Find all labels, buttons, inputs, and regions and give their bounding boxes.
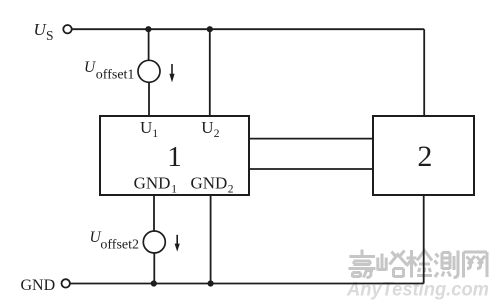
wire right vertical to box 2 top <box>423 29 425 116</box>
label U_offset2 <box>90 229 140 253</box>
terminal US <box>63 25 71 33</box>
svg-text:1: 1 <box>167 141 182 173</box>
wire GND1 drop <box>153 195 155 231</box>
watermark 嘉 <box>349 250 376 278</box>
arrow current direction 1 <box>169 64 174 82</box>
box 2 <box>373 116 474 195</box>
svg-text:U: U <box>201 118 213 137</box>
svg-text:2: 2 <box>228 184 234 196</box>
wire GND2 drop <box>210 195 212 284</box>
svg-text:GND: GND <box>191 174 228 193</box>
node junction bottom 2 <box>208 280 214 286</box>
wire box2 bottom drop <box>423 195 425 284</box>
svg-text:2: 2 <box>417 140 432 173</box>
wire source1 to box 1 <box>148 82 150 116</box>
label U_offset1 <box>84 59 134 83</box>
wire bus A box1 to box2 <box>249 138 373 140</box>
svg-text:U: U <box>140 118 152 137</box>
watermark 检 <box>407 250 433 278</box>
pin label GND2 <box>191 174 234 196</box>
box 1 <box>100 116 249 195</box>
node junction top 1 <box>145 26 151 32</box>
source U_offset1 <box>138 60 160 82</box>
watermark 测 <box>435 251 459 278</box>
node junction top 2 <box>207 26 213 32</box>
node junction bottom 1 <box>151 280 157 286</box>
svg-text:GND: GND <box>21 277 56 294</box>
wire U2 drop <box>209 29 211 116</box>
pin label GND1 <box>134 174 178 196</box>
svg-text:offset1: offset1 <box>96 68 135 83</box>
svg-text:1: 1 <box>171 184 177 196</box>
terminal GND <box>61 279 69 287</box>
arrow current direction 2 <box>175 235 180 252</box>
wire top bus <box>72 28 424 30</box>
wire bottom bus <box>70 283 424 285</box>
wire source2 to bottom bus <box>153 253 155 284</box>
watermark 峪 <box>378 251 407 278</box>
pin label U1 <box>140 118 158 140</box>
wire U1 drop <box>148 29 150 60</box>
source U_offset2 <box>143 231 165 253</box>
svg-text:2: 2 <box>214 128 220 140</box>
svg-text:AnyTesting.com: AnyTesting.com <box>346 279 489 301</box>
watermark 网 <box>464 252 488 278</box>
svg-text:offset2: offset2 <box>100 238 139 253</box>
wire bus B box1 to box2 <box>249 168 373 170</box>
svg-text:S: S <box>46 28 54 43</box>
svg-text:GND: GND <box>134 174 171 193</box>
label U_S <box>34 20 54 43</box>
svg-text:1: 1 <box>152 128 158 140</box>
pin label U2 <box>201 118 219 140</box>
